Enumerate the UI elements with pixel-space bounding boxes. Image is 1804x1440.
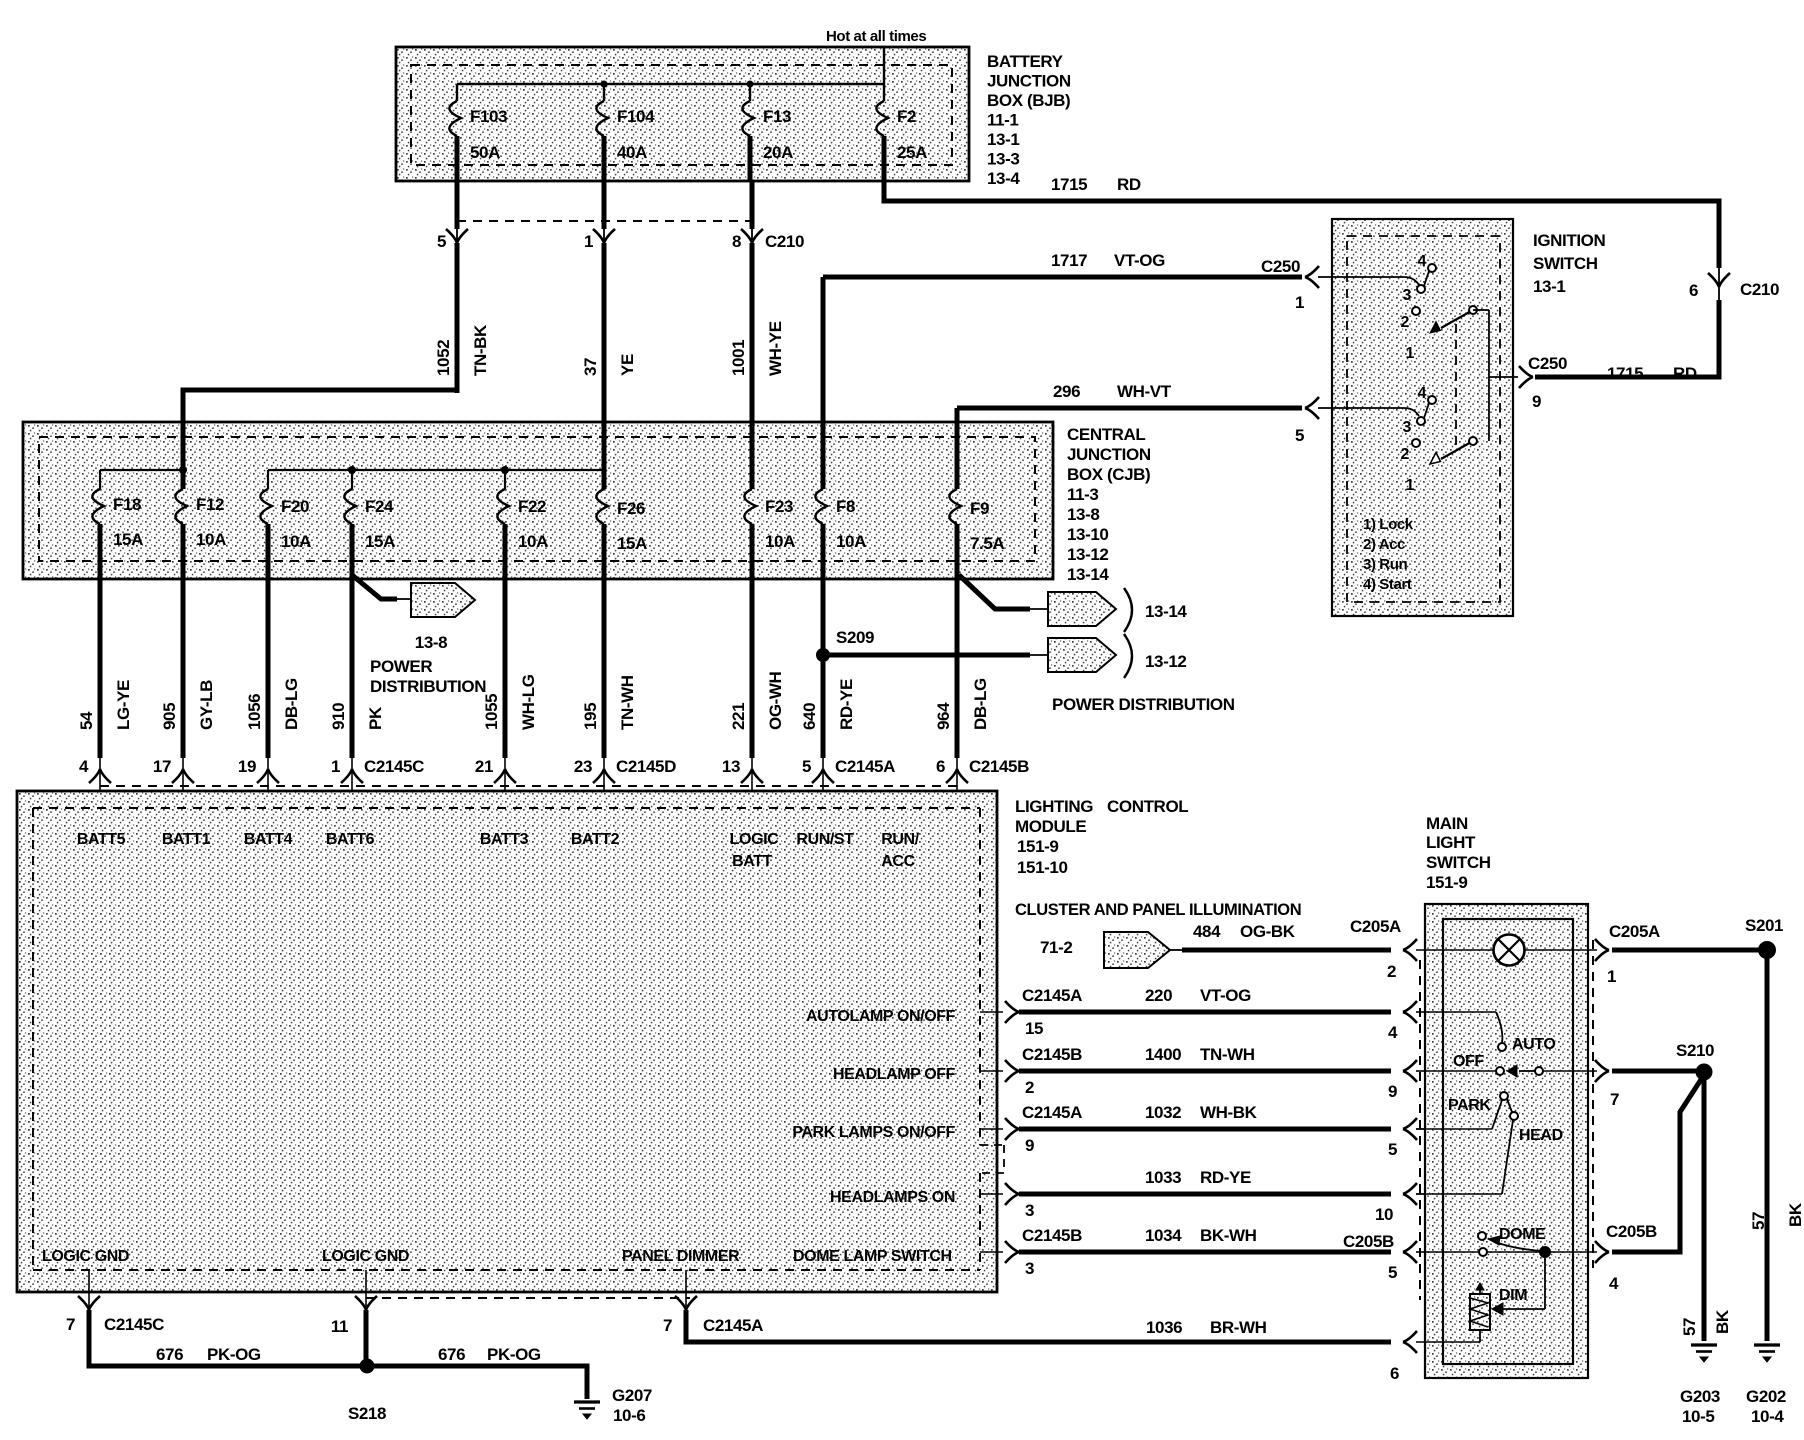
svg-text:6: 6 [1390,1364,1399,1383]
svg-text:57: 57 [1680,1318,1699,1336]
svg-text:4: 4 [1418,253,1427,270]
svg-text:SWITCH: SWITCH [1533,254,1598,273]
svg-text:WH-LG: WH-LG [519,674,538,730]
svg-text:RD: RD [1117,175,1141,194]
svg-text:13-14: 13-14 [1067,565,1109,584]
svg-text:151-9: 151-9 [1017,837,1058,856]
svg-text:10A: 10A [836,532,866,551]
svg-text:2: 2 [1401,446,1410,463]
svg-text:F9: F9 [970,499,989,518]
svg-text:2: 2 [1025,1078,1034,1097]
svg-text:DISTRIBUTION: DISTRIBUTION [370,677,486,696]
svg-text:15: 15 [1025,1019,1043,1038]
svg-text:50A: 50A [470,143,500,162]
svg-text:1056: 1056 [245,694,264,730]
svg-text:5: 5 [1388,1263,1397,1282]
svg-text:25A: 25A [897,143,927,162]
svg-text:F13: F13 [763,107,791,126]
svg-text:1400: 1400 [1145,1045,1181,1064]
svg-text:C205B: C205B [1343,1232,1394,1251]
svg-text:151-10: 151-10 [1017,858,1068,877]
svg-text:DOME LAMP SWITCH: DOME LAMP SWITCH [793,1248,952,1265]
svg-text:RUN/ST: RUN/ST [796,831,854,848]
svg-text:1032: 1032 [1145,1103,1181,1122]
svg-text:G207: G207 [612,1386,652,1405]
svg-text:5: 5 [437,232,446,251]
svg-text:C250: C250 [1528,354,1567,373]
svg-text:JUNCTION: JUNCTION [1067,445,1151,464]
svg-text:1: 1 [584,232,593,251]
svg-text:296: 296 [1053,382,1080,401]
svg-text:1: 1 [331,757,340,776]
svg-text:G203: G203 [1680,1387,1720,1406]
svg-text:13-1: 13-1 [987,130,1019,149]
svg-text:20A: 20A [763,143,793,162]
svg-text:19: 19 [238,757,256,776]
svg-text:F23: F23 [765,497,793,516]
svg-text:7: 7 [66,1315,75,1334]
svg-text:C2145A: C2145A [1022,986,1082,1005]
svg-text:3: 3 [1403,419,1412,436]
svg-text:676: 676 [438,1345,465,1364]
svg-text:1717: 1717 [1051,251,1087,270]
svg-text:1: 1 [1295,293,1304,312]
svg-text:S218: S218 [348,1404,386,1423]
svg-text:220: 220 [1145,986,1172,1005]
svg-text:7: 7 [663,1316,672,1335]
svg-text:WH-YE: WH-YE [766,321,785,376]
svg-text:C2145A: C2145A [703,1316,763,1335]
svg-text:F24: F24 [365,497,394,516]
svg-text:DB-LG: DB-LG [282,678,301,730]
svg-text:1715: 1715 [1051,175,1087,194]
svg-text:C2145B: C2145B [969,757,1029,776]
svg-text:BK: BK [1786,1202,1804,1227]
svg-text:7: 7 [1610,1090,1619,1109]
svg-text:1: 1 [1607,967,1616,986]
svg-text:RD-YE: RD-YE [837,679,856,730]
svg-text:1036: 1036 [1146,1318,1182,1337]
svg-text:13-12: 13-12 [1145,652,1186,671]
svg-text:21: 21 [475,757,493,776]
svg-text:S210: S210 [1676,1041,1714,1060]
svg-text:WH-BK: WH-BK [1200,1103,1258,1122]
svg-text:2: 2 [1387,962,1396,981]
svg-text:13: 13 [722,757,740,776]
svg-text:BATTERY: BATTERY [987,52,1064,71]
svg-text:F104: F104 [617,107,655,126]
svg-text:C2145C: C2145C [364,757,424,776]
svg-text:23: 23 [574,757,592,776]
svg-text:10-6: 10-6 [613,1406,645,1425]
svg-text:CLUSTER AND PANEL ILLUMINATION: CLUSTER AND PANEL ILLUMINATION [1015,901,1301,919]
svg-text:BATT4: BATT4 [244,831,293,848]
svg-text:PANEL DIMMER: PANEL DIMMER [622,1248,740,1265]
svg-text:C210: C210 [765,232,804,251]
svg-text:11-3: 11-3 [1067,485,1099,504]
svg-text:9: 9 [1388,1082,1397,1101]
svg-text:71-2: 71-2 [1040,938,1072,957]
svg-text:15A: 15A [365,532,395,551]
svg-text:VT-OG: VT-OG [1114,251,1165,270]
svg-text:13-8: 13-8 [415,633,447,652]
svg-text:7.5A: 7.5A [970,534,1004,553]
svg-text:5: 5 [1388,1140,1397,1159]
svg-text:LIGHT: LIGHT [1426,833,1476,852]
svg-text:9: 9 [1025,1136,1034,1155]
svg-text:F2: F2 [897,107,916,126]
svg-text:OG-WH: OG-WH [766,671,785,730]
svg-text:F18: F18 [113,495,141,514]
svg-text:AUTO: AUTO [1512,1036,1555,1053]
svg-text:BOX (CJB): BOX (CJB) [1067,465,1150,484]
svg-text:13-8: 13-8 [1067,505,1099,524]
svg-text:C250: C250 [1261,257,1300,276]
svg-text:DB-LG: DB-LG [971,678,990,730]
svg-text:WH-VT: WH-VT [1117,382,1172,401]
svg-text:4) Start: 4) Start [1363,576,1412,593]
svg-text:5: 5 [802,757,811,776]
svg-text:G202: G202 [1746,1387,1786,1406]
svg-text:964: 964 [934,702,953,730]
svg-text:4: 4 [1388,1023,1398,1042]
svg-text:C2145B: C2145B [1022,1226,1082,1245]
svg-text:2: 2 [1401,314,1410,331]
svg-text:BATT5: BATT5 [77,831,126,848]
svg-text:BOX (BJB): BOX (BJB) [987,91,1070,110]
svg-text:PK-OG: PK-OG [487,1345,541,1364]
svg-text:LG-YE: LG-YE [114,680,133,730]
svg-text:10A: 10A [196,530,226,549]
svg-text:POWER: POWER [370,657,432,676]
svg-text:10: 10 [1375,1205,1393,1224]
svg-text:195: 195 [581,703,600,730]
svg-text:1001: 1001 [729,340,748,376]
svg-text:910: 910 [329,703,348,730]
svg-text:BATT2: BATT2 [571,831,620,848]
svg-text:9: 9 [1532,392,1541,411]
svg-text:13-14: 13-14 [1145,602,1187,621]
svg-text:RD-YE: RD-YE [1200,1168,1251,1187]
svg-text:C205A: C205A [1609,922,1660,941]
svg-text:HEADLAMPS ON: HEADLAMPS ON [830,1189,955,1206]
svg-text:C205B: C205B [1606,1222,1657,1241]
svg-text:11-1: 11-1 [987,111,1019,130]
svg-text:221: 221 [729,703,748,730]
svg-text:40A: 40A [617,143,647,162]
svg-text:11: 11 [331,1317,348,1336]
svg-text:F22: F22 [518,497,546,516]
svg-text:C210: C210 [1740,280,1779,299]
svg-text:15A: 15A [113,530,143,549]
svg-text:54: 54 [77,711,96,730]
svg-text:4: 4 [1418,385,1427,402]
svg-text:VT-OG: VT-OG [1200,986,1251,1005]
svg-text:2) Acc: 2) Acc [1363,536,1405,553]
svg-text:Hot at all times: Hot at all times [826,28,926,45]
svg-text:HEADLAMP OFF: HEADLAMP OFF [833,1066,956,1083]
svg-text:C2145D: C2145D [616,757,676,776]
svg-text:1) Lock: 1) Lock [1363,516,1414,533]
svg-text:RD: RD [1673,364,1697,383]
svg-text:BK: BK [1713,1309,1732,1334]
svg-text:3: 3 [1025,1259,1034,1278]
svg-text:CENTRAL: CENTRAL [1067,425,1145,444]
svg-text:57: 57 [1749,1212,1768,1230]
svg-text:LOGIC GND: LOGIC GND [322,1248,409,1265]
svg-text:F20: F20 [281,497,309,516]
svg-text:LIGHTING: LIGHTING [1015,797,1093,816]
svg-text:905: 905 [160,703,179,730]
svg-text:MAIN: MAIN [1426,814,1468,833]
svg-text:PK-OG: PK-OG [207,1345,261,1364]
svg-text:151-9: 151-9 [1426,873,1467,892]
svg-text:IGNITION: IGNITION [1533,231,1605,250]
svg-text:5: 5 [1295,426,1304,445]
svg-text:JUNCTION: JUNCTION [987,72,1071,91]
svg-text:4: 4 [1609,1274,1619,1293]
svg-text:10A: 10A [765,532,795,551]
svg-text:C2145A: C2145A [835,757,895,776]
svg-text:1: 1 [1406,477,1415,494]
svg-text:15A: 15A [617,534,647,553]
svg-text:C2145A: C2145A [1022,1103,1082,1122]
svg-text:TN-BK: TN-BK [471,324,490,376]
svg-text:13-3: 13-3 [987,150,1019,169]
svg-text:3) Run: 3) Run [1363,556,1408,573]
svg-text:OG-BK: OG-BK [1240,922,1296,941]
svg-text:DOME: DOME [1499,1226,1546,1243]
svg-text:CONTROL: CONTROL [1107,797,1188,816]
svg-text:S201: S201 [1745,916,1783,935]
svg-text:8: 8 [732,232,741,251]
svg-text:AUTOLAMP ON/OFF: AUTOLAMP ON/OFF [806,1008,956,1025]
svg-text:6: 6 [936,757,945,776]
svg-text:GY-LB: GY-LB [197,680,216,730]
svg-text:484: 484 [1193,922,1221,941]
svg-text:ACC: ACC [881,853,915,870]
svg-text:BK-WH: BK-WH [1200,1226,1257,1245]
svg-text:1715: 1715 [1607,364,1643,383]
svg-text:BATT3: BATT3 [480,831,529,848]
svg-text:TN-WH: TN-WH [618,675,637,730]
svg-text:10A: 10A [518,532,548,551]
svg-text:10-4: 10-4 [1751,1407,1784,1426]
svg-text:BR-WH: BR-WH [1210,1318,1267,1337]
svg-text:PARK: PARK [1448,1097,1491,1114]
svg-text:F26: F26 [617,499,645,518]
svg-text:LOGIC: LOGIC [730,831,780,848]
svg-text:1052: 1052 [434,340,453,376]
svg-text:RUN/: RUN/ [881,831,919,848]
svg-text:10-5: 10-5 [1682,1407,1714,1426]
svg-text:13-12: 13-12 [1067,545,1108,564]
svg-text:13-4: 13-4 [987,169,1020,188]
svg-text:3: 3 [1025,1201,1034,1220]
svg-text:LOGIC GND: LOGIC GND [42,1248,129,1265]
svg-text:F12: F12 [196,495,224,514]
svg-text:13-10: 13-10 [1067,525,1108,544]
svg-text:POWER DISTRIBUTION: POWER DISTRIBUTION [1052,695,1235,714]
svg-text:F103: F103 [470,107,507,126]
svg-text:BATT6: BATT6 [326,831,375,848]
svg-text:DIM: DIM [1499,1287,1527,1304]
svg-text:17: 17 [153,757,171,776]
svg-text:10A: 10A [281,532,311,551]
svg-text:C2145C: C2145C [104,1315,164,1334]
svg-text:1055: 1055 [482,694,501,730]
svg-text:PARK LAMPS ON/OFF: PARK LAMPS ON/OFF [792,1124,955,1141]
svg-text:YE: YE [618,354,637,376]
svg-text:C205A: C205A [1350,917,1401,936]
svg-text:F8: F8 [836,497,855,516]
svg-text:1: 1 [1406,345,1415,362]
svg-text:676: 676 [156,1345,183,1364]
svg-text:13-1: 13-1 [1533,277,1565,296]
svg-text:4: 4 [79,757,89,776]
svg-text:MODULE: MODULE [1015,817,1086,836]
svg-text:S209: S209 [836,628,874,647]
svg-text:1034: 1034 [1145,1226,1182,1245]
svg-text:TN-WH: TN-WH [1200,1045,1255,1064]
svg-text:HEAD: HEAD [1519,1127,1563,1144]
svg-text:PK: PK [366,706,385,730]
svg-text:SWITCH: SWITCH [1426,853,1491,872]
svg-text:BATT: BATT [732,853,772,870]
svg-text:6: 6 [1689,281,1698,300]
svg-text:1033: 1033 [1145,1168,1181,1187]
svg-text:37: 37 [581,358,600,376]
svg-text:OFF: OFF [1453,1053,1484,1070]
svg-text:C2145B: C2145B [1022,1045,1082,1064]
svg-text:640: 640 [800,703,819,730]
svg-text:BATT1: BATT1 [162,831,211,848]
svg-text:3: 3 [1403,287,1412,304]
